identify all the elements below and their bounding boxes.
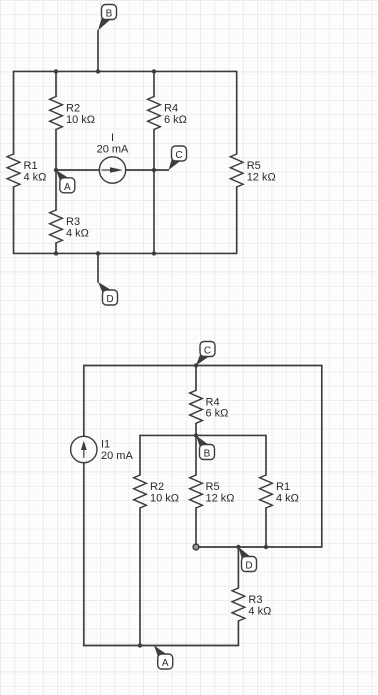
wire I1 bottom lead bbox=[83, 463, 85, 646]
wire right branch upper (R5 top lead) bbox=[236, 71, 238, 154]
svg-text:10 kΩ: 10 kΩ bbox=[66, 114, 95, 126]
resistor R5 circuit 2 bbox=[190, 475, 203, 508]
label R1 value bbox=[24, 160, 47, 183]
label current source I value bbox=[97, 132, 129, 155]
label R5 value bbox=[247, 160, 276, 183]
resistor R3 circuit 2 bbox=[232, 588, 245, 621]
node C flag circuit 2 bbox=[196, 342, 215, 366]
wire R3 top lead circuit 2 bbox=[237, 547, 239, 588]
svg-text:D: D bbox=[106, 294, 113, 305]
junction dot R2 bottom rail circuit 2 bbox=[138, 643, 142, 647]
resistor R1 circuit 2 bbox=[260, 475, 273, 508]
wire right branch lower (R5 bottom lead) bbox=[236, 187, 238, 253]
svg-text:A: A bbox=[162, 658, 169, 669]
wire R5 top lead circuit 2 bbox=[195, 435, 197, 475]
label R5 value circuit 2 bbox=[206, 481, 235, 504]
resistor R3 bbox=[50, 210, 63, 243]
svg-text:B: B bbox=[106, 9, 113, 20]
wire R4 bottom to bottom rail bbox=[153, 130, 155, 254]
junction dot top rail at node B stub bbox=[96, 69, 100, 73]
svg-text:6 kΩ: 6 kΩ bbox=[206, 408, 229, 420]
svg-text:C: C bbox=[175, 150, 182, 161]
wire R2 bottom lead circuit 2 bbox=[139, 508, 141, 646]
wire node A to R3 bbox=[55, 170, 57, 210]
junction dot R1 bottom circuit 2 bbox=[264, 545, 268, 549]
wire R2 bottom to node A bbox=[55, 130, 57, 171]
wire R4 top lead circuit 2 bbox=[195, 366, 197, 391]
label R2 value bbox=[66, 103, 95, 126]
resistor R2 circuit 2 bbox=[134, 475, 147, 508]
svg-text:R2: R2 bbox=[66, 103, 80, 115]
svg-text:C: C bbox=[204, 346, 211, 357]
label R3 value bbox=[66, 216, 89, 239]
resistor R5 bbox=[230, 154, 243, 187]
svg-text:4 kΩ: 4 kΩ bbox=[24, 171, 47, 183]
label R1 value circuit 2 bbox=[276, 481, 299, 504]
label I1 value bbox=[101, 439, 133, 463]
wire top rail circuit 2 bbox=[84, 365, 322, 367]
junction dot node D circuit 2 bbox=[236, 545, 240, 549]
wire left branch upper (R1 top lead) bbox=[13, 71, 15, 154]
junction dot node B circuit 2 bbox=[194, 433, 198, 437]
junction dot node A bbox=[54, 168, 58, 172]
svg-text:R3: R3 bbox=[248, 594, 262, 606]
wire R3 bottom lead bbox=[55, 243, 57, 253]
wire top rail circuit 1 bbox=[14, 70, 237, 72]
svg-text:R3: R3 bbox=[66, 216, 80, 228]
junction dot bottom rail at R4 branch bbox=[152, 251, 156, 255]
svg-text:R1: R1 bbox=[276, 481, 290, 493]
svg-text:4 kΩ: 4 kΩ bbox=[66, 227, 89, 239]
wire left branch lower (R1 bottom lead) bbox=[13, 187, 15, 253]
node D flag bbox=[98, 282, 118, 305]
wire node B stub bbox=[97, 31, 99, 72]
label R4 value bbox=[164, 103, 187, 126]
svg-text:12 kΩ: 12 kΩ bbox=[206, 492, 235, 504]
open node circle circuit 2 bbox=[193, 544, 199, 550]
wire R2 top lead circuit 2 bbox=[139, 435, 141, 475]
wire R1 top lead circuit 2 bbox=[265, 435, 267, 475]
svg-text:R1: R1 bbox=[24, 160, 38, 172]
svg-text:B: B bbox=[204, 449, 211, 460]
junction dot bottom rail at node D stub bbox=[96, 251, 100, 255]
wire right vertical circuit 2 bbox=[321, 366, 323, 548]
label R4 value circuit 2 bbox=[206, 396, 229, 419]
svg-text:R5: R5 bbox=[206, 481, 220, 493]
resistor R2 bbox=[50, 97, 63, 130]
wire bottom rail circuit 1 bbox=[14, 252, 237, 254]
resistor R4 bbox=[148, 97, 161, 130]
node C flag bbox=[169, 146, 187, 170]
svg-text:R4: R4 bbox=[164, 103, 178, 115]
node A flag circuit 2 bbox=[154, 646, 173, 670]
wire R4 bottom to node B circuit 2 bbox=[195, 423, 197, 435]
current source I1 circle bbox=[71, 436, 97, 462]
node D flag circuit 2 bbox=[238, 547, 256, 572]
svg-text:4 kΩ: 4 kΩ bbox=[248, 605, 271, 617]
wire bottom node rail circuit 2 bbox=[199, 546, 322, 548]
wire I1 top lead bbox=[83, 366, 85, 437]
node B flag bbox=[98, 5, 117, 31]
svg-text:D: D bbox=[245, 561, 252, 572]
svg-text:R5: R5 bbox=[247, 160, 261, 172]
junction dot bottom rail at R3 bbox=[54, 251, 58, 255]
node A flag bbox=[56, 170, 75, 193]
svg-text:I1: I1 bbox=[101, 439, 110, 451]
wire R5 bottom lead to open node bbox=[195, 508, 197, 544]
wire R4 top lead bbox=[153, 71, 155, 96]
wire node A to current source I bbox=[56, 169, 99, 171]
svg-text:A: A bbox=[64, 182, 71, 193]
svg-text:I: I bbox=[111, 132, 114, 144]
svg-text:6 kΩ: 6 kΩ bbox=[164, 114, 187, 126]
svg-text:4 kΩ: 4 kΩ bbox=[276, 492, 299, 504]
current source I arrow bbox=[102, 167, 124, 173]
wire node D stub bbox=[97, 253, 99, 282]
resistor R1 bbox=[7, 154, 20, 187]
svg-text:10 kΩ: 10 kΩ bbox=[150, 492, 179, 504]
label R2 value circuit 2 bbox=[150, 481, 179, 504]
svg-text:R4: R4 bbox=[206, 396, 220, 408]
svg-text:20 mA: 20 mA bbox=[101, 450, 133, 462]
wire current source I to node C bbox=[126, 169, 169, 171]
junction dot node C circuit 2 bbox=[194, 363, 198, 367]
wire middle rail node B circuit 2 bbox=[140, 434, 266, 436]
current source I circle bbox=[99, 157, 125, 183]
svg-text:12 kΩ: 12 kΩ bbox=[247, 171, 276, 183]
junction dot R4 branch at node C wire bbox=[152, 168, 156, 172]
wire R1 bottom lead circuit 2 bbox=[265, 508, 267, 547]
junction dot top rail at R2 bbox=[54, 69, 58, 73]
label R3 value circuit 2 bbox=[248, 594, 271, 617]
junction dot top rail at R4 bbox=[152, 69, 156, 73]
svg-text:R2: R2 bbox=[150, 481, 164, 493]
node B flag circuit 2 bbox=[196, 435, 215, 459]
resistor R4 circuit 2 bbox=[190, 390, 203, 423]
current source I1 arrow bbox=[81, 441, 87, 458]
svg-text:20 mA: 20 mA bbox=[97, 143, 129, 155]
wire bottom rail circuit 2 bbox=[84, 645, 239, 647]
wire R3 bottom lead circuit 2 bbox=[237, 621, 239, 646]
wire R2 top lead bbox=[55, 71, 57, 96]
